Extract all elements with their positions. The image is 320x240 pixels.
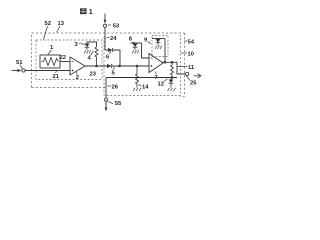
label 21 (53, 71, 60, 80)
ground hatch for resistor 14 (133, 88, 141, 91)
ground hatch in box 9 (155, 46, 162, 50)
diode 3 to ground (85, 42, 90, 50)
label 25 (187, 76, 198, 87)
wire from box 9 down to output node (164, 39, 166, 63)
svg-text:14: 14 (142, 84, 149, 90)
sensor resistor box 1 (40, 55, 60, 68)
ground hatch for diode 8 (132, 50, 139, 54)
label 26 (108, 85, 119, 91)
node dot at resistor 14 tap (136, 65, 139, 68)
wire from diode 3 to resistor 4 top (87, 42, 97, 47)
resistor 14 (136, 66, 139, 88)
label 52 (44, 21, 51, 40)
node dot output/ref (164, 61, 167, 64)
svg-text:53: 53 (113, 24, 120, 30)
outer dashed box 13 (left part, bottom at y=87.5) (32, 33, 185, 88)
label 12 (158, 79, 168, 88)
label 3 (75, 42, 86, 48)
svg-text:11: 11 (188, 65, 195, 71)
svg-text:54: 54 (188, 40, 195, 46)
diode 8 to ground (131, 43, 142, 50)
long wire to ground terminal (net 26) (106, 77, 177, 79)
svg-text:10: 10 (188, 52, 194, 58)
label 54 (185, 40, 195, 46)
svg-text:7: 7 (155, 75, 158, 81)
op-amp 7 output wire (163, 62, 187, 74)
ground hatch for diode 12 (168, 88, 176, 91)
inner dashed box 9 (reference block) (152, 36, 168, 57)
resistor 4 (95, 47, 98, 66)
wire 21 from terminal 51 to amp 2 lower input (25, 70, 70, 72)
svg-text:22: 22 (60, 55, 66, 61)
svg-text:2: 2 (76, 75, 79, 81)
label 4 (88, 51, 94, 61)
diode 6 (105, 48, 120, 66)
figure title 図1 (80, 8, 93, 16)
node dot output/feedback (171, 61, 174, 64)
supply terminal 53 with down arrow (103, 14, 106, 28)
label 2 (76, 72, 79, 81)
svg-text:21: 21 (53, 74, 60, 80)
resistor from output down (171, 62, 174, 77)
label 11 (177, 65, 195, 71)
label 51 (16, 60, 23, 69)
inner dashed box 52 (left block) (36, 40, 102, 80)
supply rail wire 24 (104, 27, 106, 50)
label 53 (108, 24, 120, 30)
diode 5 on bus (107, 64, 149, 68)
label 7 (155, 72, 158, 82)
ground hatch for diode 3 (84, 50, 91, 54)
svg-text:12: 12 (158, 81, 164, 87)
output terminal 11 (186, 72, 189, 75)
svg-text:55: 55 (115, 101, 122, 107)
input terminal 51 with arrow (12, 69, 26, 72)
wire 26 down to terminal 55 (105, 78, 107, 99)
label 13 (57, 21, 65, 33)
label 55 (108, 101, 122, 107)
output arrow 25 (194, 74, 201, 78)
label 24 (107, 36, 118, 42)
node dot 23 (95, 65, 98, 68)
reference diode in box 9 (152, 39, 165, 46)
svg-text:23: 23 (90, 72, 97, 78)
svg-text:1: 1 (89, 9, 93, 16)
inner dashed box 10 (right block) (104, 35, 181, 95)
label 1 (48, 45, 54, 55)
label 10 (181, 52, 194, 58)
wire amp2 output to node 23 (85, 65, 107, 67)
svg-text:26: 26 (112, 85, 119, 91)
svg-text:24: 24 (110, 36, 117, 42)
diode 12 to ground (169, 78, 174, 88)
svg-text:51: 51 (16, 60, 23, 66)
op-amp 2 (70, 57, 85, 75)
node dot wire/resistor (171, 76, 174, 79)
label 6 (106, 52, 111, 61)
terminal 55 with down arrow (104, 98, 107, 112)
svg-text:13: 13 (58, 21, 65, 27)
node dot junction diode6/bus (118, 65, 121, 68)
label 5 (112, 67, 116, 76)
wire 22 from box 1 to amp 2 upper input (60, 61, 70, 63)
svg-text:25: 25 (190, 81, 197, 87)
op-amp 7 (149, 54, 163, 73)
wire from diode 8 to op-amp 7 inverting input (142, 43, 150, 58)
label 14 (139, 84, 150, 90)
outer dashed box 54 (right part, bottom at y=95.5) (180, 33, 185, 96)
